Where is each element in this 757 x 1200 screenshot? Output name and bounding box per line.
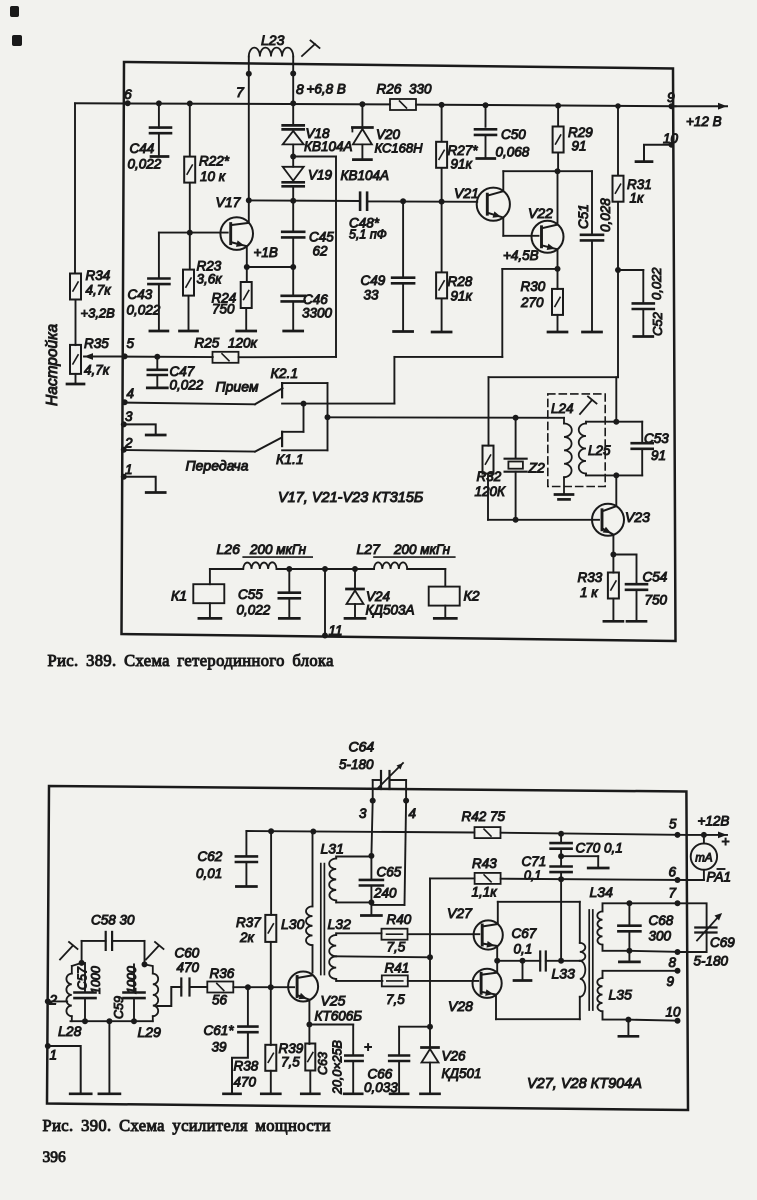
svg-text:К2: К2 <box>464 588 480 604</box>
node 10 terminal <box>669 142 675 148</box>
switch contact K1.1 <box>303 404 305 432</box>
svg-text:С54: С54 <box>643 570 668 585</box>
wire from bus corner down to R34 <box>74 103 76 272</box>
svg-text:750: 750 <box>645 593 668 608</box>
svg-text:КС168Н: КС168Н <box>375 141 424 156</box>
capacitor C54 <box>613 554 636 556</box>
svg-text:240: 240 <box>373 886 397 901</box>
L32 center tap wire <box>336 956 430 957</box>
svg-text:4: 4 <box>409 806 417 821</box>
bottom rail of input tank <box>71 1020 153 1022</box>
wire R34 to R35 <box>75 300 77 345</box>
tank top rail <box>586 421 642 423</box>
svg-text:8: 8 <box>669 955 677 970</box>
node V22 collector junction <box>555 168 561 174</box>
switch pole wire <box>282 403 394 405</box>
tank bottom rail <box>586 474 642 476</box>
wire V28 collector <box>496 961 498 973</box>
inductor L33 <box>580 943 586 961</box>
node V18/V19 junction <box>290 154 296 160</box>
svg-text:Передача: Передача <box>186 458 249 474</box>
svg-text:С55: С55 <box>238 587 263 602</box>
node R37/R38 junction <box>268 984 274 990</box>
wire V27 collector rail <box>497 902 499 924</box>
svg-text:1к: 1к <box>630 191 645 206</box>
svg-text:5: 5 <box>127 336 135 351</box>
svg-text:К1: К1 <box>171 588 187 604</box>
wire to C66 <box>399 1026 430 1028</box>
capacitor C61 <box>247 987 249 1026</box>
capacitor C68 <box>628 903 630 925</box>
resistor R36 <box>207 982 233 993</box>
node R31/C52 junction <box>615 267 621 273</box>
node switch output <box>325 414 331 420</box>
svg-text:4,7к: 4,7к <box>86 283 112 298</box>
inductor L29 <box>153 974 158 1017</box>
wire oscillator signal line y=201 <box>290 198 296 204</box>
svg-text:R26: R26 <box>377 82 402 97</box>
potentiometer R35 <box>70 345 81 374</box>
capacitor C70 <box>558 831 564 837</box>
svg-text:62: 62 <box>313 244 329 259</box>
svg-text:R36: R36 <box>210 966 235 981</box>
svg-text:R41: R41 <box>385 961 410 976</box>
svg-text:3: 3 <box>125 409 133 424</box>
C59 trimmer arrow <box>146 946 159 960</box>
node 1 terminal <box>121 474 127 480</box>
svg-text:С63: С63 <box>316 1052 330 1075</box>
svg-text:1,1к: 1,1к <box>472 885 498 900</box>
svg-text:0,022: 0,022 <box>127 303 161 318</box>
svg-text:7,5: 7,5 <box>386 992 405 1007</box>
svg-text:L32: L32 <box>328 916 352 932</box>
switch block top rail <box>282 382 327 384</box>
svg-text:5,1 пФ: 5,1 пФ <box>349 228 387 242</box>
svg-text:R42 75: R42 75 <box>462 809 506 824</box>
node 3 stub <box>372 780 374 801</box>
svg-text:5-180: 5-180 <box>339 757 374 772</box>
svg-text:R25: R25 <box>195 336 220 351</box>
inductor L25 <box>579 424 586 474</box>
svg-text:L34: L34 <box>590 884 614 900</box>
svg-text:4,7к: 4,7к <box>84 363 110 378</box>
svg-text:6: 6 <box>124 86 132 102</box>
svg-text:L30: L30 <box>281 916 305 932</box>
wire R43 left to L32 tap <box>430 877 475 879</box>
wire R32 top to R31 node <box>489 376 619 378</box>
svg-text:С71: С71 <box>522 854 547 869</box>
svg-text:+1В: +1В <box>254 245 278 260</box>
svg-text:8: 8 <box>296 81 304 97</box>
svg-text:С58 30: С58 30 <box>91 913 135 928</box>
relay coil K2 <box>444 569 446 587</box>
wire bus +6.8V <box>75 103 390 104</box>
svg-text:R30: R30 <box>521 279 546 294</box>
L24 adjustable core mark <box>580 400 592 414</box>
svg-text:470: 470 <box>234 1075 257 1090</box>
svg-text:R38: R38 <box>234 1059 259 1074</box>
svg-text:R35: R35 <box>84 336 109 351</box>
svg-text:6: 6 <box>669 865 677 880</box>
svg-text:С51: С51 <box>576 204 591 229</box>
svg-text:С57: С57 <box>76 966 90 990</box>
inductor L30 <box>312 832 314 907</box>
switch block right rail <box>327 383 329 450</box>
svg-text:Прием: Прием <box>216 379 259 395</box>
svg-text:10: 10 <box>666 1005 682 1020</box>
node 8 <box>290 71 296 77</box>
capacitor C49 <box>400 198 406 204</box>
svg-text:0,1: 0,1 <box>514 942 533 957</box>
wire V28 emitter rail <box>495 995 497 1020</box>
resistor R28 <box>441 202 443 272</box>
wire V21 emitter to V22 base <box>502 218 504 236</box>
capacitor C71 <box>560 856 562 866</box>
wire node 2 Peredacha <box>124 450 255 452</box>
resistor R31 <box>615 103 621 109</box>
svg-text:КД503А: КД503А <box>366 603 415 618</box>
svg-text:3,6к: 3,6к <box>197 272 223 287</box>
inductor L24 <box>563 418 565 424</box>
svg-text:56: 56 <box>212 993 228 1008</box>
wire R41 to V28 base <box>408 980 478 982</box>
svg-text:330: 330 <box>409 82 432 97</box>
node 1 input terminal <box>45 1043 51 1049</box>
svg-text:33: 33 <box>364 288 380 303</box>
resistor R38 <box>270 987 272 1045</box>
node L30 top <box>310 829 316 835</box>
svg-text:С70 0,1: С70 0,1 <box>576 841 623 856</box>
svg-text:7,5: 7,5 <box>387 940 406 955</box>
svg-text:V17, V21-V23 КТ315Б: V17, V21-V23 КТ315Б <box>278 490 423 506</box>
transistor V28 <box>473 969 502 998</box>
svg-text:0,022: 0,022 <box>170 378 204 393</box>
svg-text:0,033: 0,033 <box>364 1080 398 1095</box>
svg-text:4: 4 <box>127 386 135 401</box>
wire output center <box>497 960 522 962</box>
capacitor C58 <box>105 932 107 950</box>
capacitor C44 <box>156 100 162 106</box>
svg-text:С53: С53 <box>644 431 669 446</box>
resistor R32 <box>488 377 490 446</box>
svg-text:V26: V26 <box>442 1049 467 1064</box>
svg-text:L25: L25 <box>588 443 611 458</box>
capacitor C66 <box>389 1054 409 1056</box>
svg-text:V19: V19 <box>308 168 333 183</box>
svg-text:9: 9 <box>667 974 675 989</box>
wire V17 collector to node 7 <box>248 200 250 223</box>
svg-text:10: 10 <box>663 131 679 146</box>
L35 ground stub <box>627 1020 629 1035</box>
svg-text:V27: V27 <box>447 905 473 921</box>
milliammeter PA1 <box>691 843 717 869</box>
node 8 rail <box>626 948 632 954</box>
svg-text:+12 В: +12 В <box>686 114 722 129</box>
svg-text:V21: V21 <box>454 185 479 201</box>
svg-text:L31: L31 <box>321 841 344 857</box>
svg-text:+: + <box>364 1039 372 1055</box>
wire bias column <box>427 1024 433 1030</box>
inductor L35 <box>597 978 602 1011</box>
capacitor C62 <box>245 831 247 856</box>
svg-text:470: 470 <box>177 960 200 975</box>
dashed box of L24/L25 <box>548 394 605 487</box>
C57 trimmer arrow <box>60 946 73 960</box>
wire R36 to V25 base <box>233 986 294 988</box>
svg-text:К2.1: К2.1 <box>271 365 299 381</box>
quartz resonator Z2 <box>513 415 519 421</box>
svg-text:7,5: 7,5 <box>281 1055 300 1070</box>
capacitor C43 <box>158 233 160 279</box>
node R27/R28 junction <box>439 199 445 205</box>
svg-text:КВ104А: КВ104А <box>341 168 390 183</box>
wire node 8 down to V18 <box>292 103 294 124</box>
capacitor C65 <box>370 856 372 880</box>
svg-text:1000: 1000 <box>89 966 103 994</box>
svg-text:+4,5В: +4,5В <box>503 248 539 263</box>
svg-text:3: 3 <box>359 806 367 821</box>
resistor R43 <box>475 873 501 884</box>
capacitor C63 electrolytic <box>309 1024 353 1026</box>
scan speck <box>12 35 22 46</box>
wire C51 branch <box>558 170 593 172</box>
capacitor C47 <box>154 354 160 360</box>
wire node 3 down to L31/C65 <box>371 801 372 856</box>
wire +12V rail <box>246 831 474 833</box>
resistor R39 <box>308 1025 310 1045</box>
transistor V27 <box>474 920 503 949</box>
resistor R37 <box>268 828 274 834</box>
wire V25 emitter <box>308 1000 310 1025</box>
svg-text:0,022: 0,022 <box>237 603 271 618</box>
wire V17 base node <box>187 230 193 236</box>
svg-text:R34: R34 <box>86 268 111 283</box>
wire +12V output arrow node 9 <box>676 105 728 107</box>
capacitor C69 variable <box>678 903 707 952</box>
svg-text:+: + <box>722 833 730 849</box>
svg-text:2к: 2к <box>239 930 255 945</box>
svg-text:V28: V28 <box>448 998 473 1014</box>
resistor R26 <box>390 99 416 110</box>
node L28 top <box>79 960 85 966</box>
resistor R34 <box>70 274 81 300</box>
svg-text:91: 91 <box>651 448 666 463</box>
svg-text:КТ606Б: КТ606Б <box>315 1009 363 1024</box>
L23 adjustable core mark <box>302 44 315 56</box>
svg-text:R33: R33 <box>578 570 603 585</box>
svg-text:С44: С44 <box>130 141 155 156</box>
wire V21 collector <box>502 171 504 191</box>
svg-text:С52: С52 <box>650 311 665 336</box>
svg-text:39: 39 <box>212 1040 228 1055</box>
wire R25 to varicap feed <box>239 356 337 358</box>
svg-text:КД501: КД501 <box>442 1066 482 1081</box>
node 5 and +12V arrow <box>675 832 681 838</box>
varicap V18 <box>283 124 304 127</box>
C64 variable arrow <box>377 763 403 789</box>
node L29 top <box>142 961 148 967</box>
resistor R30 <box>557 269 559 289</box>
wire V17 emitter <box>246 246 248 267</box>
svg-text:1: 1 <box>125 462 133 477</box>
node 9 <box>669 103 675 109</box>
svg-text:L29: L29 <box>138 1024 162 1040</box>
svg-text:+3,2В: +3,2В <box>81 306 116 321</box>
resistor R41 <box>382 975 408 986</box>
svg-text:V23: V23 <box>625 509 650 525</box>
svg-text:2: 2 <box>49 993 58 1008</box>
svg-text:200 мкГн: 200 мкГн <box>393 542 451 557</box>
capacitor C53 <box>641 422 643 443</box>
svg-text:V27, V28 КТ904А: V27, V28 КТ904А <box>527 1076 642 1092</box>
svg-text:120К: 120К <box>475 484 507 499</box>
resistor R23 <box>189 233 191 270</box>
svg-text:1: 1 <box>50 1048 58 1063</box>
inductor L28 <box>66 974 71 1017</box>
svg-text:R37: R37 <box>236 915 261 930</box>
wire R31 node down to tank <box>617 270 619 377</box>
wire R40 to V27 base <box>408 933 480 935</box>
node L31/C65 top <box>368 853 374 859</box>
node 7 rail <box>626 900 632 906</box>
node V22 emitter junction <box>557 249 559 269</box>
svg-text:300: 300 <box>649 929 672 944</box>
wire bus right segment <box>416 105 675 107</box>
svg-text:КВ104А: КВ104А <box>304 139 353 154</box>
svg-text:mA: mA <box>695 853 713 865</box>
C68 ground stub <box>628 951 630 961</box>
relay coil K1 <box>209 569 211 584</box>
svg-text:1000: 1000 <box>125 966 139 994</box>
svg-text:С65: С65 <box>377 865 402 880</box>
wire V23 base <box>488 519 599 521</box>
svg-text:20,0×25В: 20,0×25В <box>331 1040 345 1095</box>
R35 wiper arrow from node 5 <box>84 356 125 358</box>
wire V23 emitter <box>612 535 614 555</box>
svg-text:1 к: 1 к <box>580 585 598 600</box>
resistor R27 <box>439 102 445 108</box>
wire V22 emitter output <box>502 268 557 270</box>
capacitor C45 <box>292 201 294 232</box>
svg-text:С69: С69 <box>710 935 735 950</box>
wire node6 to L33 tap <box>560 879 562 961</box>
svg-text:9: 9 <box>667 89 675 105</box>
svg-text:120к: 120к <box>228 336 258 351</box>
svg-text:11: 11 <box>329 623 343 638</box>
node V17 collector junction <box>246 197 252 203</box>
svg-text:L23: L23 <box>261 32 285 48</box>
svg-text:С59: С59 <box>112 996 126 1019</box>
svg-text:3300: 3300 <box>302 306 333 321</box>
svg-text:R32: R32 <box>477 469 502 484</box>
node 7 <box>246 71 252 77</box>
svg-text:С60: С60 <box>175 946 200 961</box>
capacitor C55 <box>286 566 292 572</box>
capacitor C59 trimmer <box>133 964 135 991</box>
node C65 bottom / ground <box>368 899 374 905</box>
svg-text:С50: С50 <box>501 127 526 142</box>
switch block bottom rail <box>282 449 327 451</box>
node 2 <box>121 447 127 453</box>
svg-text:Рис. 389. Схема гетеродинного: Рис. 389. Схема гетеродинного блока <box>48 651 335 670</box>
capacitor C67 <box>523 960 541 962</box>
svg-text:R22*: R22* <box>199 154 230 169</box>
L29 tap wire <box>158 987 182 1006</box>
resistor R33 <box>612 555 614 573</box>
node 4 <box>122 399 128 405</box>
svg-text:5-180: 5-180 <box>694 954 729 969</box>
node 5 <box>122 353 128 359</box>
wire R43 right / node 6 line <box>501 879 687 880</box>
svg-text:5: 5 <box>669 817 677 832</box>
wire V23 collector <box>615 475 617 506</box>
transformer core 2 <box>588 910 590 1010</box>
svg-text:+6,8 В: +6,8 В <box>307 82 346 97</box>
node 6 <box>125 100 131 106</box>
capacitor C60 <box>180 979 182 996</box>
svg-text:0,022: 0,022 <box>128 157 162 172</box>
svg-text:0,01: 0,01 <box>196 866 222 881</box>
transistor V23 <box>592 504 624 536</box>
node 2 input <box>45 998 51 1004</box>
resistor R42 <box>475 827 501 838</box>
svg-text:С45: С45 <box>309 230 334 245</box>
resistor R24 <box>246 267 248 282</box>
inductor L23 <box>249 48 293 57</box>
varicap V19 <box>292 157 294 167</box>
capacitor C52 <box>618 269 643 271</box>
wire varicap junction to R25 feed <box>293 156 336 158</box>
capacitor C57 trimmer <box>84 963 86 992</box>
resistor R40 <box>382 929 408 940</box>
node C45/C46 junction <box>290 264 296 270</box>
svg-text:С68: С68 <box>649 913 674 928</box>
svg-text:V22: V22 <box>528 205 553 221</box>
svg-text:L27: L27 <box>357 541 382 557</box>
svg-text:396: 396 <box>43 1149 67 1166</box>
wire node5 to R25 <box>125 356 213 359</box>
resistor R25 <box>213 352 239 363</box>
svg-text:К1.1: К1.1 <box>276 451 304 467</box>
scan speck <box>10 6 19 17</box>
C70 ground stub <box>561 855 598 857</box>
wire switch to tank <box>328 416 565 419</box>
svg-text:L24: L24 <box>551 401 574 416</box>
svg-text:С64: С64 <box>349 739 375 755</box>
capacitor C48 <box>359 193 362 210</box>
transistor V17 <box>220 217 253 250</box>
svg-text:L33: L33 <box>552 966 576 982</box>
svg-text:РА1: РА1 <box>707 870 731 885</box>
C67 ground stub <box>520 958 526 964</box>
wire node 4 Priem <box>125 403 255 405</box>
svg-text:0,028: 0,028 <box>598 198 613 232</box>
capacitor C51 <box>581 234 603 237</box>
svg-text:91к: 91к <box>451 157 473 172</box>
svg-text:Z2: Z2 <box>528 460 546 476</box>
svg-text:200 мкГн: 200 мкГн <box>249 542 307 557</box>
node 4 stub <box>405 780 407 801</box>
wire V27 emitter <box>496 946 498 961</box>
svg-text:R43: R43 <box>472 856 497 871</box>
svg-text:0,022: 0,022 <box>649 267 664 300</box>
svg-text:91: 91 <box>572 139 587 154</box>
transistor V21 <box>477 188 510 221</box>
L32 bottom lead <box>335 979 337 981</box>
frame of heterodyne block Fig.389 <box>122 62 676 641</box>
svg-text:750: 750 <box>212 302 235 317</box>
zener V20 <box>359 101 365 107</box>
